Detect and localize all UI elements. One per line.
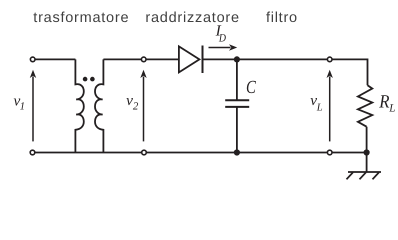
capacitor C top lead (236, 59, 238, 100)
arrow v1 (30, 70, 36, 142)
label ID (215, 23, 226, 45)
transformer T1 primary winding (75, 59, 83, 152)
capacitor C bottom lead (236, 107, 238, 153)
label v1 (14, 92, 26, 112)
node junction bottom right (364, 149, 370, 155)
label v2 (126, 92, 139, 112)
terminal circle primary bottom (30, 150, 35, 155)
arrow v2 (140, 70, 146, 142)
svg-text:L: L (316, 103, 323, 114)
wire primary top (33, 58, 76, 60)
label vL (310, 92, 323, 113)
wire diode to load corner (203, 59, 368, 85)
svg-text:raddrizzatore: raddrizzatore (145, 10, 239, 26)
svg-text:D: D (218, 33, 226, 45)
wire bottom rail (33, 152, 367, 154)
svg-text:1: 1 (20, 101, 25, 113)
svg-text:trasformatore: trasformatore (33, 10, 129, 26)
terminal circle v2 bottom (142, 150, 147, 155)
terminal circle vL top (327, 57, 332, 62)
transformer polarity dot left (83, 77, 88, 82)
label RL (378, 92, 395, 115)
wire secondary top (103, 58, 178, 60)
diode D1 triangle (179, 46, 200, 72)
capacitor C plates (225, 100, 249, 107)
resistor RL (358, 85, 372, 126)
terminal circle primary top (30, 57, 35, 62)
node junction capacitor bottom (234, 149, 240, 155)
svg-text:L: L (388, 102, 395, 114)
resistor RL bottom lead (366, 127, 368, 153)
terminal circle v2 top (141, 57, 146, 62)
transformer T1 secondary winding (95, 59, 103, 152)
ground (347, 153, 382, 180)
arrow vL (327, 70, 333, 142)
svg-text:2: 2 (133, 100, 139, 112)
node junction diode-capacitor (234, 56, 240, 62)
svg-text:filtro: filtro (266, 10, 298, 26)
terminal circle vL bottom (327, 150, 332, 155)
svg-text:R: R (378, 92, 390, 113)
transformer polarity dot right (90, 77, 95, 82)
svg-text:C: C (246, 78, 256, 98)
diode D1 cathode bar (202, 46, 204, 74)
arrow ID (209, 44, 238, 50)
